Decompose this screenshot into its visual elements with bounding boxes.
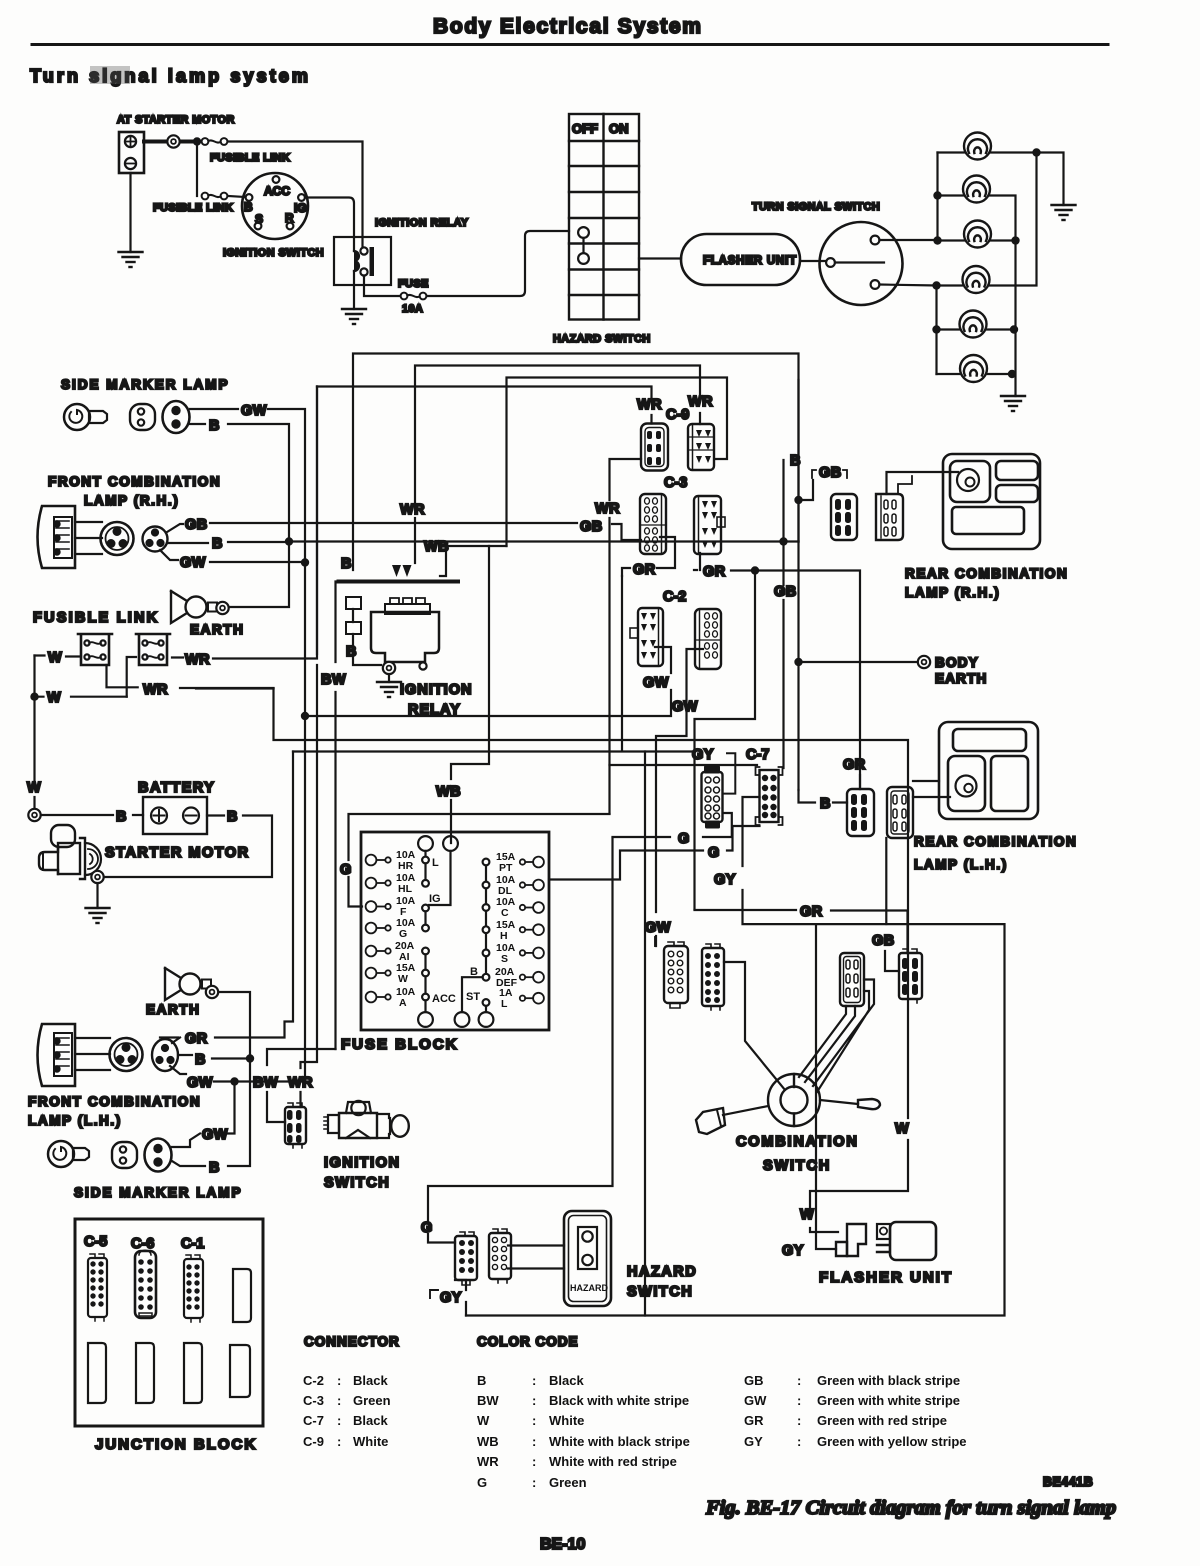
svg-text:G: G [708,845,720,861]
svg-text:C-9: C-9 [666,407,689,423]
junction block box [75,1219,263,1426]
svg-text:Green with red stripe: Green with red stripe [817,1413,947,1428]
svg-text:GY: GY [714,872,736,888]
svg-text:W: W [27,780,41,796]
connector C-7 left [702,766,723,829]
node lamp4 left [932,281,940,289]
svg-text:S: S [255,212,263,226]
svg-text:R: R [285,211,294,225]
node bus2 [933,191,941,199]
svg-text:GW: GW [645,920,671,936]
wire GW long vertical [304,563,306,1082]
svg-text:GY: GY [782,1243,804,1259]
wire B top loop (line1) [353,354,799,571]
combination connector white [664,942,688,1008]
starter motor symbol [39,825,101,879]
lamp L3 [964,221,991,248]
svg-text:HAZARD SWITCH: HAZARD SWITCH [553,333,651,345]
wire top feed to right then down to relay contact [228,142,364,252]
lamp L4 [963,266,990,293]
svg-text:White: White [353,1434,388,1449]
wire battery plus to junction (thick) [144,140,197,144]
bus from lamp1 down to lamp4 [989,153,1037,286]
wire B continue down [797,662,799,790]
wire junction down to fusible link 2 [196,142,198,197]
wire flasher to switch [800,260,826,262]
wire stub bracket [898,476,912,494]
wire GR left drop [160,752,293,1038]
node W branch [30,693,38,701]
hazard mid connector white [489,1229,511,1283]
wire GR down to lower run [695,571,756,910]
wire W upper left piece [196,687,274,689]
svg-text:JUNCTION BLOCK: JUNCTION BLOCK [95,1436,257,1453]
svg-text:WR: WR [477,1454,499,1469]
wire GW side marker RH [190,409,305,563]
svg-text:IGNITION RELAY: IGNITION RELAY [375,217,469,229]
wire GB down right side [782,460,784,768]
wire lamp6 row [937,373,1013,375]
svg-text:C-3: C-3 [664,475,687,491]
wires housing to connector [75,522,102,554]
svg-text:SIDE MARKER LAMP: SIDE MARKER LAMP [61,377,230,392]
svg-text:B: B [346,644,357,660]
ignition switch connector [285,1103,306,1148]
svg-text:TURN SIGNAL SWITCH: TURN SIGNAL SWITCH [752,201,880,213]
wire GR right run [731,571,860,790]
ground top right [1052,205,1076,220]
svg-text:LAMP (R.H.): LAMP (R.H.) [84,493,179,508]
wires housing LH to connector [75,1038,110,1070]
svg-text:LAMP (R.H.): LAMP (R.H.) [905,585,1000,600]
svg-text:GW: GW [202,1127,228,1143]
wire B down to earth RH [229,542,289,608]
svg-text:FUSIBLE LINK: FUSIBLE LINK [210,152,290,164]
combination connector black [702,944,724,1010]
front comb connector RH round 3pin [101,522,168,555]
svg-text::: : [337,1393,341,1408]
node lamp5 right [1010,325,1018,333]
svg-text:W: W [895,1121,909,1137]
svg-text:C-6: C-6 [131,1236,154,1252]
svg-text::: : [337,1413,341,1428]
svg-text:WR: WR [185,652,210,668]
node B join [285,537,293,545]
svg-text:GR: GR [633,562,656,578]
connector legend entries [303,1373,391,1449]
ignition switch circle U1 [242,173,308,239]
svg-text:GR: GR [843,757,866,773]
fusible link 1 [202,138,228,145]
svg-text:Green with yellow stripe: Green with yellow stripe [817,1434,967,1449]
svg-text::: : [532,1434,536,1449]
wire hazard to flasher [639,257,681,259]
svg-text:WR: WR [688,394,713,410]
node lamp3 left [933,236,941,244]
side marker bulb RH [64,404,107,430]
side marker connector pair RH [130,401,190,433]
wire W far left down [33,656,35,787]
rear RH connector hatched [831,494,857,540]
relay top bar [339,580,459,584]
wire lamp1 row [938,153,1064,206]
svg-text::: : [532,1475,536,1490]
wire block1 bottom to block2 feed [107,657,137,697]
front comb connector LH [110,1038,179,1071]
wire GW stub into connector [654,937,656,946]
svg-text:C-9: C-9 [303,1434,324,1449]
svg-text::: : [337,1434,341,1449]
lamp L2 [963,176,990,203]
wire GR LH [172,1038,180,1044]
svg-text:HAZARD: HAZARD [627,1264,697,1280]
svg-text:FUSE: FUSE [398,278,429,290]
svg-text::: : [797,1373,801,1388]
svg-text:W: W [48,650,62,666]
fusible link 2 [202,193,228,200]
svg-text:C: C [501,907,509,919]
wire B into rear LH connector [799,790,848,803]
junction slot top right [233,1269,251,1322]
svg-text:GB: GB [872,933,895,949]
node B LH [246,1054,254,1062]
svg-text:White with black stripe: White with black stripe [549,1434,690,1449]
svg-text:B: B [227,809,238,825]
lamp L6 [960,355,987,382]
wire lamp5 row [937,328,1015,330]
svg-text:REAR COMBINATION: REAR COMBINATION [914,834,1077,849]
svg-text:GR: GR [744,1413,764,1428]
wire switch up-pin to lamp bus [880,239,938,241]
svg-text:IG: IG [429,893,441,905]
svg-text:GR: GR [185,1031,208,1047]
wire B side marker RH [190,424,289,542]
svg-text::: : [532,1373,536,1388]
box left vertical [644,752,646,1316]
svg-text:B: B [341,556,352,572]
label GY lower-left [430,1290,438,1298]
wire fuse to hazard switch [427,231,569,296]
node B lower right [794,496,802,504]
svg-text:Black: Black [353,1373,388,1388]
ground bottom of lamp bank [1001,396,1025,411]
svg-text:IG: IG [294,201,307,215]
svg-text:LAMP (L.H.): LAMP (L.H.) [914,857,1008,872]
wire WR drop [301,387,318,1108]
wire GY main from C-7 [466,797,1005,1316]
svg-text:SWITCH: SWITCH [627,1284,693,1300]
node lamp5 left [932,325,940,333]
node lamp1 right [1032,148,1040,156]
node GW LH [230,1077,238,1085]
wire G down right side [428,839,613,1243]
wire GW branch to side marker LH [172,1082,235,1148]
svg-text:Green: Green [353,1393,391,1408]
wire WB down to fuse block [451,546,489,843]
wire starter to ground [96,883,98,908]
svg-text:GB: GB [774,584,797,600]
svg-text:WB: WB [477,1434,499,1449]
combination connector black right [899,949,922,1003]
wire relay coil to ground [353,271,355,309]
wire GW-1 from C-2 left [305,647,671,716]
svg-text:HL: HL [398,883,413,895]
right bus1 down [1014,241,1016,397]
wire relay contact down to fuse [364,276,400,297]
node lamp3 right [1011,236,1019,244]
svg-text::: : [797,1434,801,1449]
svg-text:White with red stripe: White with red stripe [549,1454,677,1469]
svg-text:G: G [678,831,690,847]
color code column 1 [477,1373,690,1490]
relay pin right [419,662,426,669]
svg-text:COLOR CODE: COLOR CODE [477,1334,579,1349]
fuse block box [361,832,549,1030]
wire B LH down to side marker [172,1059,250,1167]
svg-text:WR: WR [637,397,662,413]
front comb lamp housing RH [38,506,76,568]
wire GR long run [293,750,694,752]
wire G from C-7 left down [613,813,732,837]
svg-text:L: L [432,857,439,869]
svg-text:W: W [800,1207,814,1223]
svg-text:IGNITION: IGNITION [324,1155,400,1171]
svg-text:HR: HR [398,860,414,872]
svg-text:G: G [421,1220,433,1236]
header rule [32,43,1108,46]
wire GW front RH [160,550,305,562]
wire GY run [455,1280,466,1316]
rear RH connector white [876,494,903,540]
turn signal switch [820,222,903,305]
svg-text:B: B [195,1052,206,1068]
wire G up and right [349,814,610,907]
fuse rows right [495,851,544,1010]
svg-text:GY: GY [692,747,714,763]
svg-text:RELAY: RELAY [408,702,461,718]
svg-text:SWITCH: SWITCH [763,1158,831,1174]
svg-text:BW: BW [321,672,346,688]
wire connector to rear RH lamp [887,472,959,494]
node GR branch [751,566,759,574]
earth ring RH [216,602,228,614]
svg-text:EARTH: EARTH [190,622,245,637]
wire BW drop [267,1049,336,1122]
wire BW from relay bar [336,582,339,1050]
svg-text::: : [532,1454,536,1469]
wire B vertical right [797,380,799,542]
relay K1 box [334,237,391,285]
svg-text:G: G [399,928,407,940]
svg-text:WR: WR [400,502,425,518]
starter ring terminal [91,871,103,883]
svg-text:H: H [500,930,508,942]
combination switch hub [768,1074,820,1126]
fusible link block 1 [78,634,112,665]
svg-text:Body Electrical System: Body Electrical System [433,15,703,38]
svg-text:B: B [116,809,127,825]
wire B LH [178,1055,250,1059]
svg-text::: : [797,1393,801,1408]
svg-text:GB: GB [185,517,208,533]
svg-text::: : [532,1393,536,1408]
wire ring to battery [41,814,143,816]
fuse mid chains [418,836,458,1027]
svg-text:BODY: BODY [935,655,979,670]
flasher unit oval [681,234,800,285]
node junction at 197,141 [193,137,201,145]
svg-text:BE441B: BE441B [1043,1475,1093,1489]
svg-text:PT: PT [499,862,513,874]
wires mid connector to hub [799,1006,855,1082]
svg-text:GB: GB [819,465,842,481]
wire hub line to GR drop [906,952,908,954]
svg-text:B: B [820,796,831,812]
G connector black [455,1232,477,1285]
svg-text:C-3: C-3 [303,1393,324,1408]
svg-text:S: S [501,953,508,965]
svg-text:GY: GY [744,1434,763,1449]
svg-text:C-1: C-1 [181,1236,204,1252]
wire GB long [167,523,641,540]
lamp L1 [964,133,991,160]
hazard switch body [564,1211,611,1306]
svg-text:Green with white stripe: Green with white stripe [817,1393,960,1408]
svg-text:FUSIBLE LINK: FUSIBLE LINK [33,610,159,626]
ignition switch key symbol [324,1101,409,1138]
svg-text:GW: GW [241,403,267,419]
svg-text:BATTERY: BATTERY [138,780,215,796]
svg-text:LAMP (L.H.): LAMP (L.H.) [28,1113,122,1128]
svg-text:B: B [244,200,253,214]
connector C-1 [184,1255,203,1322]
svg-text:G: G [340,862,352,878]
node B-GB cross [779,537,787,545]
svg-text:EARTH: EARTH [935,671,988,686]
svg-text:ON: ON [609,121,629,136]
svg-text:BW: BW [253,1075,278,1091]
connector C-9 left block [641,424,668,471]
wire GB from rear LH connector [885,838,887,924]
flasher unit body [877,1222,936,1260]
svg-text:ST: ST [466,991,480,1003]
label GB bracket [812,470,847,478]
svg-text:GY: GY [440,1290,462,1306]
wires white connector to rear LH lamp [913,781,950,797]
side marker bulb LH [48,1141,89,1167]
wire B front RH [167,542,289,543]
relay body [371,612,439,662]
svg-text:IGNITION SWITCH: IGNITION SWITCH [223,247,324,259]
wire GW-2 from C-2 right [656,649,703,946]
hazard switch table [569,114,639,320]
svg-text:C-7: C-7 [746,747,769,763]
lamp L5 [960,311,987,338]
svg-text:ACC: ACC [264,184,290,198]
svg-text:Turn signal lamp system: Turn signal lamp system [30,66,311,86]
svg-text:GB: GB [744,1373,764,1388]
wire flink2 to B pin [228,196,245,197]
svg-text:FUSIBLE LINK: FUSIBLE LINK [153,202,233,214]
wire WR lower row [127,686,274,689]
svg-text:Black: Black [353,1413,388,1428]
svg-text:SWITCH: SWITCH [324,1175,390,1191]
connector square 2 [346,622,361,634]
svg-text:L: L [501,998,508,1010]
svg-text:W: W [398,973,408,985]
side marker connector pair LH [112,1139,172,1172]
right lever arm [820,1099,880,1109]
svg-text:B: B [790,453,801,469]
connector C-5 [88,1254,107,1321]
combination middle connector [840,953,864,1006]
svg-text:GW: GW [187,1075,213,1091]
svg-text:WB: WB [436,784,461,800]
left lever arm [696,1106,768,1134]
wire WR into relay terminal [414,518,416,563]
wire W into block1 [35,656,82,657]
svg-text:ACC: ACC [432,993,456,1005]
svg-text:GW: GW [744,1393,767,1408]
rear LH connector hatched [847,789,874,836]
svg-text:HAZARD: HAZARD [570,1283,608,1293]
connector C-6 [135,1250,156,1318]
wire B branch with connector squares [353,609,381,665]
ground under relay lug [388,674,390,682]
ground below relay K1 [342,309,366,324]
wire WR from block2 [172,387,317,659]
svg-text:B: B [209,418,220,434]
svg-text:STARTER MOTOR: STARTER MOTOR [105,845,250,861]
rear combination lamp RH box [943,454,1040,549]
svg-text:Green with black stripe: Green with black stripe [817,1373,960,1388]
relay top terminals [392,565,412,577]
relay cap [385,598,430,614]
node lamp6 right [1008,370,1016,378]
svg-text:Fig. BE-17 Circuit diagram fo: Fig. BE-17 Circuit diagram for turn sign… [705,1497,1116,1519]
wire C-3 left to GR bracket [657,537,675,568]
node GW mid [301,712,309,720]
ring on W feed [28,809,40,821]
wire W col to battery feed ring [33,797,35,809]
svg-text:BE-10: BE-10 [540,1536,585,1553]
svg-text:C-2: C-2 [663,589,686,605]
svg-text:GB: GB [580,519,603,535]
wire WR-mid branch to C-7 right top [610,764,758,766]
left bus bottom [935,286,937,375]
color code column 2 [744,1373,967,1449]
svg-text:EARTH: EARTH [146,1002,201,1017]
wire earth LH down [218,992,250,1059]
wire WR mid branch to C-9 left lower [610,459,642,814]
ground at starter feed [119,252,143,267]
svg-text:WR: WR [143,682,168,698]
svg-text:Green: Green [549,1475,587,1490]
wire lamp3 row [938,239,1016,241]
svg-text:A: A [399,997,407,1009]
svg-text:Black with white stripe: Black with white stripe [549,1393,689,1408]
fuse right chains [455,859,494,1027]
svg-text:B: B [477,1373,486,1388]
wire starter minus down to ground [129,173,131,252]
svg-text:GW: GW [643,675,669,691]
relay ground lug [383,662,395,674]
svg-text::: : [337,1373,341,1388]
svg-text:White: White [549,1413,584,1428]
svg-text:GR: GR [703,564,726,580]
connector square 1 [346,597,361,609]
svg-text:FRONT COMBINATION: FRONT COMBINATION [28,1094,201,1109]
